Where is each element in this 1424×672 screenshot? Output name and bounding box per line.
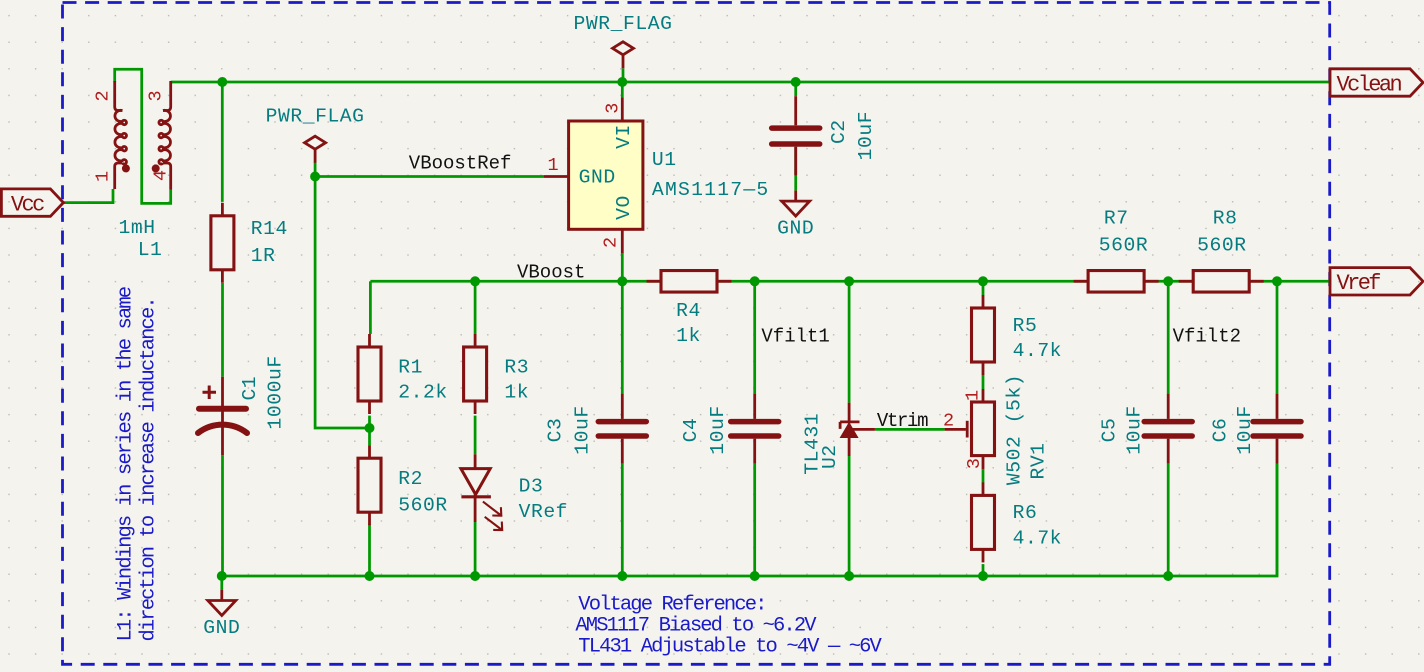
wire C6 down [1276,464,1279,576]
svg-text:U2: U2 [819,444,841,469]
wire VBoostRef down to R1/R2 [315,177,369,429]
wire rail corner to R1 [369,281,372,334]
port Vref [1330,268,1423,295]
svg-text:2: 2 [601,237,622,248]
capacitor C3 [621,394,624,419]
wire GND bottom rail [222,464,1277,576]
svg-text:GND: GND [579,166,616,188]
svg-text:C1: C1 [239,376,261,401]
svg-text:3: 3 [603,103,624,114]
svg-text:C4: C4 [680,418,702,443]
L1 right winding polarity dot [152,164,160,172]
svg-text:W502 (5k): W502 (5k) [1004,374,1026,485]
wire junction to GND symbol [220,576,223,590]
transformer L1 right winding [163,81,171,111]
svg-text:Vfilt2: Vfilt2 [1173,326,1241,348]
junction Vfilt2 / C5 [1163,276,1173,286]
wire top rail to U1 VI [621,82,624,97]
junction top rail / C2 [791,77,801,87]
wire rail to C3 [621,281,624,393]
wire R5 to RV1 [982,375,985,390]
svg-text:R7: R7 [1104,208,1129,230]
svg-text:Vref: Vref [1337,271,1381,296]
resistor R3 [474,334,477,347]
wire C4 to bottom rail [753,464,756,576]
svg-text:10uF: 10uF [855,111,877,160]
svg-text:L1: Windings in series in the: L1: Windings in series in the same [115,287,138,641]
svg-text:GND: GND [203,617,240,639]
LED D3 [474,454,477,468]
capacitor C2 [794,96,797,125]
svg-text:4.7k: 4.7k [1013,528,1062,550]
svg-text:L1: L1 [138,239,163,261]
wire rail to C6 [1276,281,1279,393]
svg-text:2: 2 [93,90,114,101]
svg-text:1: 1 [547,155,558,176]
svg-text:2.2k: 2.2k [398,382,447,404]
port Vcc [1,189,63,216]
svg-text:560R: 560R [398,494,447,516]
svg-text:10uF: 10uF [1234,405,1256,454]
wire Vcc to L1 pin1 [64,189,113,203]
ground GND (C2) [794,191,797,201]
svg-text:PWR_FLAG: PWR_FLAG [266,106,365,128]
wire C1 to bottom rail [221,455,224,576]
wire top rail to C2 [794,82,797,96]
svg-text:1: 1 [93,171,114,182]
op-amp U1 AMS1117-5 regulator body [569,121,643,229]
junction bottom rail / C4 [750,571,760,581]
junction top rail / R14 [217,77,227,87]
svg-text:RV1: RV1 [1028,442,1050,479]
svg-text:AMS1117 Biased to ~6.2V: AMS1117 Biased to ~6.2V [575,615,817,638]
wire PWR_FLAG2 stem [314,162,317,177]
wire C2 to GND [794,147,797,191]
junction R1/R2/VBoostRef [365,423,375,433]
resistor R8 [1179,280,1194,283]
junction rail / R5 [978,276,988,286]
svg-text:R3: R3 [504,356,529,378]
svg-text:3: 3 [146,90,167,101]
wire Vtrim [875,428,945,431]
junction bottom rail / R2 [365,571,375,581]
ground GND (C1) [220,590,223,600]
svg-text:1k: 1k [676,325,701,347]
U1 pin 2 VO [621,229,624,253]
wire Vclean top rail [171,81,1330,84]
svg-text:VRef: VRef [519,501,568,523]
svg-text:R6: R6 [1013,502,1038,524]
wire TL431 anode to bottom rail [848,456,851,576]
junction bottom rail / C5 [1163,571,1173,581]
capacitor C1 (polarized) [221,377,224,455]
svg-text:C2: C2 [828,119,850,144]
wire R2 to bottom rail [368,524,371,576]
junction bottom rail / TL431 [844,571,854,581]
svg-text:GND: GND [777,217,814,239]
svg-text:C3: C3 [544,418,566,443]
wire C5 to bottom rail [1167,464,1170,576]
svg-text:R8: R8 [1213,208,1238,230]
D3 arrows [483,502,502,530]
svg-text:U1: U1 [652,149,677,171]
svg-text:4: 4 [151,170,172,181]
capacitor C5 [1167,394,1170,419]
svg-text:R1: R1 [398,356,423,378]
junction bottom rail / C3 [617,571,627,581]
svg-text:560R: 560R [1099,235,1148,257]
RV1 wiper [945,428,966,431]
wire VBoostRef horizontal [315,175,544,178]
svg-text:Vtrim: Vtrim [877,410,928,432]
wire rail to R5 [982,281,985,295]
junction rail / TL431 [844,276,854,286]
power flag PWR_FLAG (top) [613,42,634,55]
svg-text:C6: C6 [1210,418,1232,443]
svg-text:VI: VI [613,124,635,149]
wire rail to R3 [474,281,477,334]
svg-text:4.7k: 4.7k [1013,340,1062,362]
L1 left winding polarity dot [122,164,130,172]
svg-text:VBoost: VBoost [517,262,585,284]
junction VBoostRef / PWR_FLAG [310,172,320,182]
svg-text:R4: R4 [676,300,701,322]
wire top rail to R14 [221,82,224,202]
svg-text:1R: 1R [251,245,276,267]
svg-text:Vcc: Vcc [11,193,44,218]
svg-text:R14: R14 [251,218,288,240]
svg-text:560R: 560R [1197,235,1246,257]
junction bottom rail / R6 [978,571,988,581]
svg-text:Voltage Reference:: Voltage Reference: [578,594,765,617]
resistor R1 [368,334,371,347]
resistor R7 [1074,280,1089,283]
resistor R5 [982,295,985,308]
svg-text:AMS1117—5: AMS1117—5 [652,179,770,201]
svg-text:1000uF: 1000uF [265,355,287,429]
svg-text:PWR_FLAG: PWR_FLAG [574,13,673,35]
wire rail to TL431 cathode [848,281,851,402]
svg-text:10uF: 10uF [1124,405,1146,454]
U1 pin 3 VI [621,97,624,121]
svg-text:1mH: 1mH [119,217,156,239]
svg-text:10uF: 10uF [572,405,594,454]
wire PWR_FLAG1 stem [622,68,625,82]
svg-text:C5: C5 [1099,418,1121,443]
resistor R4 [647,280,662,283]
capacitor C6 [1276,394,1279,419]
svg-text:2: 2 [943,411,954,432]
wire R3 to D3 [474,416,477,455]
svg-text:3: 3 [964,458,985,469]
wire C3 to bottom rail [621,464,624,576]
port Vclean [1330,69,1423,96]
resistor R6 [982,482,985,495]
capacitor C4 [753,394,756,419]
wire D3 to bottom rail [474,522,477,576]
wire U1 VO to VBoost rail [621,253,624,281]
svg-text:VBoostRef: VBoostRef [409,153,512,175]
junction Vfilt1 / C4 [750,276,760,286]
junction bottom rail / D3 [470,571,480,581]
svg-text:direction to increase inductan: direction to increase inductance. [138,298,161,641]
svg-text:R5: R5 [1013,315,1038,337]
svg-text:10uF: 10uF [707,405,729,454]
svg-text:D3: D3 [519,476,544,498]
wire Vfilt1 to C4 [753,281,756,393]
wire VBoost/Vref rail [370,280,1330,283]
wire R1 to R2 [368,416,371,446]
junction rail / C6 [1272,276,1282,286]
svg-text:Vclean: Vclean [1337,72,1402,97]
C1 plus sign [203,386,217,400]
svg-text:1k: 1k [504,382,529,404]
power flag PWR_FLAG (left) [305,136,326,149]
wire L1 pin2 to pin4 series link [115,69,171,203]
transformer L1 left winding [115,81,123,111]
resistor R14 [221,203,224,216]
svg-text:1: 1 [963,390,984,401]
junction top rail / U1 VI [617,77,627,87]
wire RV1 to R6 [982,469,985,482]
junction VBoost / U1 VO / C3 [617,276,627,286]
U1 pin 1 GND [544,175,569,178]
svg-text:TL431 Adjustable to ~4V — ~6V: TL431 Adjustable to ~4V — ~6V [578,636,882,659]
wire Vfilt2 to C5 [1167,281,1170,393]
TL431 U2 shunt reference [848,403,851,424]
potentiometer RV1 [982,389,985,402]
svg-text:VO: VO [613,195,635,220]
wire R14 to C1 [221,283,224,377]
svg-text:R2: R2 [398,468,423,490]
svg-text:Vfilt1: Vfilt1 [761,326,829,348]
resistor R2 [368,445,371,458]
wire R6 to bottom rail [982,564,985,576]
junction VBoost / R3 [470,276,480,286]
junction bottom rail / C1 / GND [217,571,227,581]
